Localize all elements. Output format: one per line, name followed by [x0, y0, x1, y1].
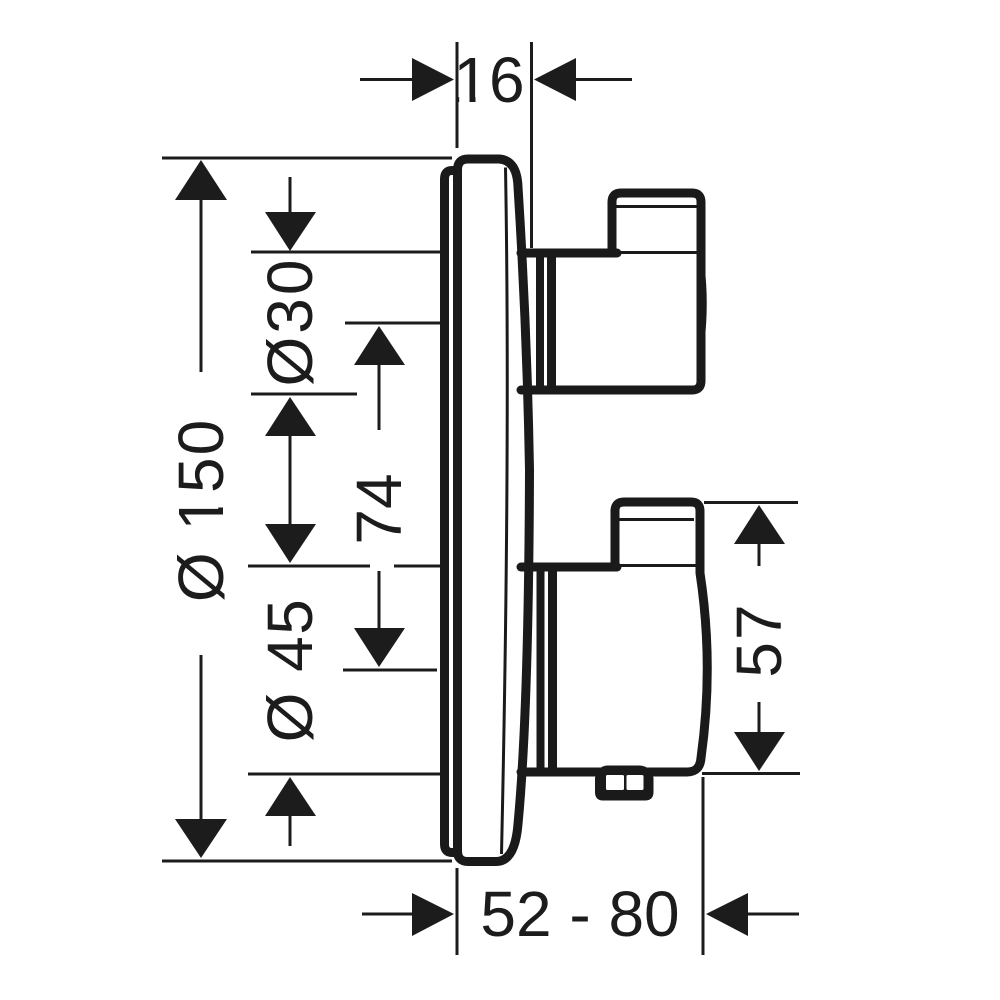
- top handle outline (bottom, right, knob): [521, 193, 701, 390]
- arrow 57 top (up): [734, 505, 785, 544]
- top handle shaft top edge: [521, 249, 617, 258]
- wire dim line lower: [200, 655, 203, 820]
- dimension Ø45 (column x=290): [248, 774, 441, 846]
- wire right leader line: [573, 78, 632, 81]
- extension line y323: [345, 322, 442, 325]
- serif trim for digit 1 of 16: [459, 97, 469, 105]
- wire upper: [758, 543, 761, 566]
- arrow Ø45 top (down): [265, 524, 316, 563]
- extension line right of 16: [530, 42, 533, 248]
- top handle knob bottom line: [614, 251, 699, 254]
- arrow Ø150 down: [175, 819, 227, 858]
- extension line y566 right part: [394, 565, 441, 568]
- back plate (rear escutcheon rim): [445, 171, 458, 853]
- dimension 52-80 (bottom): [362, 777, 799, 955]
- wire left leader: [362, 913, 414, 916]
- bottom handle outline (bottom, right, knob): [521, 502, 707, 772]
- extension line bottom: [162, 860, 452, 863]
- extension line left of 16: [456, 42, 459, 148]
- serif trim for digit 1 of 150: [217, 497, 225, 508]
- arrow 74 top (up): [354, 326, 405, 365]
- extension line left x457: [456, 868, 459, 955]
- wire between arrows: [289, 432, 292, 526]
- arrow 52-80 right: [706, 893, 748, 936]
- extension line right x703: [702, 777, 705, 955]
- extension line y773: [702, 772, 800, 775]
- wire upper: [378, 362, 381, 430]
- extension line y502: [704, 501, 798, 504]
- wire lower: [758, 702, 761, 735]
- top handle right bump: [703, 266, 705, 342]
- dimension 16 (top): [360, 42, 632, 248]
- dimension Ø150 (left): [162, 158, 452, 861]
- extension line y670: [343, 669, 437, 672]
- top handle shaft left edge: [536, 256, 544, 388]
- arrow Ø30 bottom (up): [265, 397, 316, 436]
- bottom tab left window: [606, 775, 624, 790]
- wire right leader: [747, 913, 799, 916]
- wire lower: [378, 571, 381, 632]
- dimension Ø30 (column x=290): [248, 177, 441, 566]
- svg-text:Ø 150: Ø 150: [165, 418, 237, 602]
- arrow Ø150 up: [175, 160, 227, 200]
- bottom handle body left edge: [548, 569, 557, 769]
- bottom handle knob bottom line: [614, 564, 698, 567]
- wire dim line upper: [200, 198, 203, 372]
- svg-text:Ø 45: Ø 45: [254, 598, 326, 743]
- svg-text:74: 74: [343, 473, 415, 544]
- svg-text:52 - 80: 52 - 80: [480, 878, 679, 950]
- wire below: [289, 813, 292, 846]
- svg-text:16: 16: [453, 44, 524, 116]
- bottom tab right window: [627, 775, 644, 790]
- extension line top: [162, 157, 452, 160]
- arrow Ø30 top (down): [265, 212, 316, 251]
- top handle knob inner line: [617, 205, 697, 208]
- svg-text:57: 57: [723, 602, 795, 677]
- bottom tab body: [595, 766, 654, 801]
- extension line y774: [248, 773, 441, 776]
- dimension 74 (column x=379): [343, 323, 442, 670]
- extension line y394: [251, 393, 357, 396]
- arrow 16 right: [534, 58, 576, 101]
- arrow 74 bottom (down): [354, 628, 405, 667]
- bottom handle knob inner line: [617, 518, 694, 521]
- escutcheon plate (main body side view): [458, 159, 530, 862]
- arrow Ø45 bottom (up): [265, 777, 316, 816]
- wire left leader line: [360, 78, 414, 81]
- bottom handle shaft top edge: [521, 563, 617, 572]
- arrow 16 left: [412, 58, 454, 101]
- wire stub above: [289, 177, 292, 214]
- arrow 57 bottom (down): [734, 732, 785, 771]
- extension line y566: [248, 565, 370, 568]
- bottom handle shaft left edge: [537, 569, 545, 769]
- plate front face contour line: [502, 168, 508, 855]
- svg-text:Ø30: Ø30: [254, 257, 326, 387]
- dimension 57 (column x=759): [702, 503, 800, 774]
- arrow 52-80 left: [412, 893, 454, 936]
- top handle body left edge: [547, 256, 556, 388]
- extension line y252: [251, 251, 441, 254]
